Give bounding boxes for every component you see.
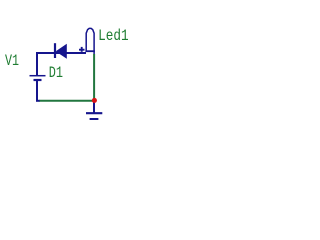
svg-text:V1: V1 <box>5 52 19 70</box>
svg-text:Led1: Led1 <box>98 27 129 45</box>
svg-text:D1: D1 <box>49 64 63 82</box>
